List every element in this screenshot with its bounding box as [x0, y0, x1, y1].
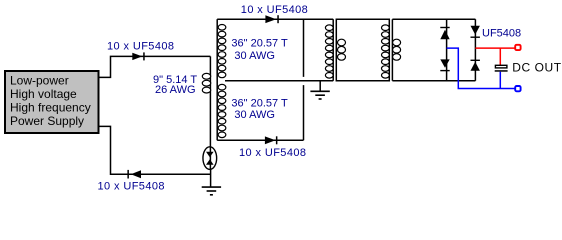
transformer T2 secondary winding — [338, 39, 346, 60]
wire box1 right edge (gap at center tap crossing) — [303, 19, 305, 140]
diode D4 10 x UF5408 box1 bottom — [239, 136, 306, 159]
svg-text:36" 20.57 T: 36" 20.57 T — [231, 37, 288, 49]
diode D7 bridge B top (points down) — [471, 26, 522, 40]
svg-text:High frequency: High frequency — [10, 101, 91, 115]
transformer T1 secondary bottom winding 36" 20.57 T 30 AWG — [218, 84, 288, 137]
svg-text:30 AWG: 30 AWG — [234, 50, 275, 62]
transformer T2 primary winding — [325, 25, 333, 78]
ground G1 below spark gap — [202, 169, 221, 194]
wire box1 bottom edge — [217, 139, 303, 141]
transformer T3 primary winding — [382, 25, 390, 78]
diode D6 bridge A bottom (points down) — [440, 59, 449, 71]
svg-text:36" 20.57 T: 36" 20.57 T — [231, 98, 288, 110]
svg-text:High voltage: High voltage — [10, 87, 77, 101]
terminal DC- — [515, 86, 520, 91]
diode D8 bridge B bottom (points up) — [471, 60, 480, 71]
wire center tap rail — [225, 80, 333, 82]
svg-text:10 x UF5408: 10 x UF5408 — [107, 41, 174, 53]
wire bridge column B — [474, 19, 476, 81]
svg-text:10 x UF5408: 10 x UF5408 — [241, 4, 308, 16]
wire blue cap branch — [499, 72, 501, 89]
transformer T1 primary winding 9" 5.14 T 26 AWG — [153, 73, 211, 96]
capacitor C1 (polarized) — [495, 65, 508, 71]
wire bottom feed — [99, 126, 211, 174]
wire box1 top edge — [217, 18, 333, 20]
svg-text:10 x UF5408: 10 x UF5408 — [98, 181, 165, 193]
diode D1 10 x UF5408 top feed — [107, 41, 174, 61]
power supply box PS1 — [5, 71, 99, 133]
svg-text:Low-power: Low-power — [10, 74, 69, 88]
wire box2 outline — [336, 19, 389, 81]
wire bridge column A — [446, 19, 448, 81]
wire DC- blue — [447, 48, 516, 88]
svg-text:30 AWG: 30 AWG — [234, 109, 275, 121]
ground G2 on center tap rail — [310, 81, 329, 99]
wire top feed — [99, 56, 211, 77]
svg-text:UF5408: UF5408 — [482, 28, 521, 40]
svg-text:26 AWG: 26 AWG — [155, 84, 196, 96]
transformer T3 secondary winding — [393, 39, 401, 60]
transformer T1 primary wire — [209, 56, 211, 147]
spark gap / surge arrester SG1 — [203, 147, 217, 170]
diode D5 bridge A top (points up) — [440, 27, 449, 39]
diode D2 10 x UF5408 bottom feed (points left) — [98, 170, 165, 193]
svg-text:10 x UF5408: 10 x UF5408 — [239, 147, 306, 159]
svg-text:DC OUT: DC OUT — [512, 61, 561, 75]
transformer T2 primary wire — [332, 19, 334, 81]
wire DC+ red — [475, 47, 515, 49]
wire red cap branch — [499, 48, 501, 65]
wire box3 rails — [392, 19, 475, 81]
diode D3 10 x UF5408 box1 top — [241, 4, 308, 23]
transformer T1 secondary top winding 36" 20.57 T 30 AWG — [218, 25, 288, 78]
transformer T1 secondary wire — [216, 19, 218, 140]
terminal DC+ — [515, 45, 520, 50]
svg-text:Power Supply: Power Supply — [10, 114, 84, 128]
